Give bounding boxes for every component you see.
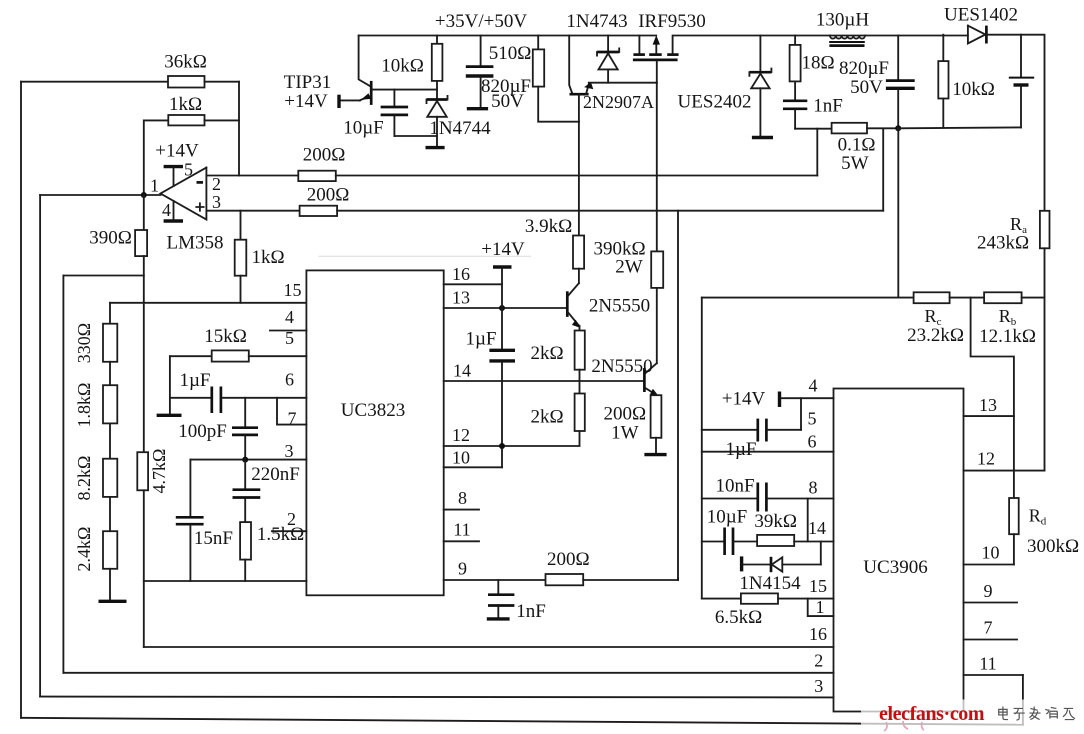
svg-text:elecfans·com: elecfans·com <box>879 703 985 725</box>
wire: TIP31 base to 10k/zener node <box>371 89 437 91</box>
svg-text:1µF: 1µF <box>465 329 496 350</box>
svg-text:200Ω: 200Ω <box>547 549 590 570</box>
terminal bar +14V (UC3906 pin4) <box>778 392 781 408</box>
node: pin13/+14V junction dot <box>499 305 505 311</box>
svg-text:12: 12 <box>452 425 470 445</box>
resistor 2kΩ (upper) <box>579 326 581 331</box>
svg-text:50V: 50V <box>850 77 883 98</box>
wire: pin 13 run to 2N5550 base <box>444 307 566 309</box>
capacitor 10µF (UC3906) <box>723 528 726 556</box>
op-amp minus sign <box>197 181 204 184</box>
svg-text:200Ω: 200Ω <box>603 404 646 425</box>
transistor Q4 2N5550 emitter with arrow <box>646 388 657 395</box>
op-amp power bar pin 5 <box>164 165 183 168</box>
pin 8 stub (UC3823) <box>444 509 479 511</box>
pin 11 run (UC3906) <box>964 674 1023 676</box>
svg-text:8.2kΩ: 8.2kΩ <box>74 456 94 501</box>
wire: 1k right to feedback column <box>205 119 240 121</box>
svg-text:2: 2 <box>287 509 296 529</box>
svg-text:2.4kΩ: 2.4kΩ <box>74 527 94 572</box>
resistor 330Ω <box>103 324 117 362</box>
wire: UC3823 pin15 run <box>110 302 306 304</box>
svg-text:2: 2 <box>814 651 823 671</box>
capacitor 820µF 50V (output) <box>897 36 899 80</box>
capacitor 15nF <box>189 460 191 516</box>
wire: UC3906 sense bus (left vertical) <box>701 298 703 599</box>
resistor Rd 300kΩ <box>1009 498 1019 534</box>
wire: pin 6 run <box>170 397 211 399</box>
wire: pin 5 run with 15k <box>170 355 212 357</box>
pin 10 run (UC3906) <box>964 564 1014 566</box>
wire: Rc/Rb horizontal run <box>702 297 914 299</box>
wire: divider segment 2 <box>109 423 111 458</box>
svg-text:1N4743: 1N4743 <box>566 11 627 32</box>
faint scan line artifact <box>319 255 532 257</box>
resistor 15kΩ <box>212 350 249 361</box>
MOSFET IRF9530 gate bar <box>633 59 678 62</box>
wire: 36k right to feedback column <box>205 81 240 83</box>
capacitor 1µF (pin6) <box>210 387 213 414</box>
wire: LM358 output (pin 1) <box>40 194 160 196</box>
ground (200Ω 1W) <box>644 453 666 456</box>
resistor 390kΩ 2W <box>656 83 658 252</box>
resistor Ra 243kΩ <box>1040 211 1050 249</box>
wire: divider top drop <box>109 303 111 324</box>
svg-text:15: 15 <box>284 280 302 300</box>
svg-text:UES2402: UES2402 <box>678 92 752 113</box>
wire: Rc/Rb node down to pin13 column <box>971 298 1014 498</box>
resistor 10kΩ (battery bleed) <box>942 35 944 61</box>
svg-text:2N2907A: 2N2907A <box>583 92 654 112</box>
wire: sense line down right side <box>897 128 899 297</box>
wire: 2907 base down to 510Ω node <box>578 94 580 122</box>
transistor Q2 2N2907A collector wire <box>569 36 572 95</box>
resistor Rb 12.1kΩ <box>984 292 1022 303</box>
MOSFET U-IRF9530 source lead <box>638 36 640 54</box>
svg-text:15nF: 15nF <box>194 528 233 549</box>
node: output junction dot <box>895 125 901 131</box>
transistor Q3 2N5550 base plate <box>566 291 569 317</box>
svg-text:4: 4 <box>285 307 294 327</box>
ground (divider) <box>99 600 127 603</box>
capacitor 100pF <box>244 398 246 426</box>
wire: +35V/+50V top rail right segment (after MOSFET) <box>673 36 968 54</box>
svg-text:+14V: +14V <box>155 141 199 162</box>
wire: 36k feedback top run <box>21 81 168 83</box>
wire: third left rail (divider net to UC3906 pin2) <box>62 276 64 673</box>
svg-text:1nF: 1nF <box>516 601 546 622</box>
transistor Q4 2N5550 base plate <box>643 368 646 392</box>
svg-text:2W: 2W <box>615 257 643 278</box>
op-amp U2 LM358 triangle <box>161 168 207 220</box>
resistor 4.7kΩ <box>137 452 148 490</box>
svg-text:4.7kΩ: 4.7kΩ <box>149 449 169 494</box>
watermark backing <box>861 700 1036 731</box>
svg-text:1µF: 1µF <box>179 370 210 391</box>
transistor Q1 TIP31 emitter with arrow <box>360 96 371 101</box>
terminal bar (820µF input neg) <box>467 107 488 110</box>
resistor 200Ω (pin 9) <box>546 574 584 585</box>
svg-text:5: 5 <box>184 160 193 180</box>
svg-text:LM358: LM358 <box>167 233 224 254</box>
wire: UC3906 pin 2 run <box>63 672 833 674</box>
wire: 1nF bottom / sense node <box>795 128 832 130</box>
svg-text:+14V: +14V <box>284 91 328 112</box>
pin 7 tie to pin 6 <box>277 398 306 425</box>
svg-text:5: 5 <box>808 409 817 429</box>
svg-text:+14V: +14V <box>722 389 766 410</box>
wire: Rb right to Ra column <box>1022 297 1045 299</box>
wire: rail from UES1402 to right corner <box>986 35 1044 211</box>
zener diode 1N4744 <box>427 98 448 101</box>
capacitor 10µF (TIP31) <box>393 90 395 106</box>
svg-text:4: 4 <box>809 376 818 396</box>
transistor Q1 TIP31 base plate <box>370 81 373 105</box>
svg-text:36kΩ: 36kΩ <box>164 52 207 73</box>
wire: divider segment 1 <box>109 362 111 385</box>
wire: pin 6 run <box>702 451 834 453</box>
terminal bar +14V (UC3823) <box>493 265 512 268</box>
op-amp power bar pin 4 <box>164 219 183 222</box>
resistor 1kΩ (feedback) <box>168 115 204 125</box>
wire: pin 15 run with 6.5k <box>702 598 741 600</box>
diode UES2402 (freewheel) <box>759 36 761 72</box>
resistor 510Ω <box>537 36 539 50</box>
pin 7 stub (UC3906) <box>964 639 1018 641</box>
svg-text:11: 11 <box>979 654 996 674</box>
svg-text:100pF: 100pF <box>178 421 227 442</box>
wire: pin 11 drop <box>1022 675 1024 725</box>
wire: pin 5 run <box>702 429 757 431</box>
wire: +35V/+50V top rail left segment <box>359 35 657 37</box>
resistor Rc 23.2kΩ <box>914 292 950 303</box>
svg-text:12.1kΩ: 12.1kΩ <box>979 326 1036 347</box>
IC U4 UC3906 box <box>834 389 964 712</box>
resistor 2.4kΩ <box>103 531 117 569</box>
transistor Q2 2N2907A emitter with arrow <box>586 84 589 94</box>
wire: feedback column (pin2 net down to pin9 net) <box>677 211 679 580</box>
node: pin12 junction dot <box>499 443 505 449</box>
svg-text:2: 2 <box>212 174 221 194</box>
svg-text:7: 7 <box>984 618 993 638</box>
svg-text:5: 5 <box>285 328 294 348</box>
ground (UES2402) <box>752 136 773 139</box>
capacitor 1µF (UC3906) <box>756 419 759 442</box>
resistor 1kΩ (to UC3823 pin15) <box>240 211 242 240</box>
svg-text:18Ω: 18Ω <box>801 53 834 74</box>
svg-text:7: 7 <box>288 409 297 429</box>
wire: pin 12 run <box>444 431 580 446</box>
svg-text:3: 3 <box>212 192 221 212</box>
svg-text:1: 1 <box>816 597 825 617</box>
wire: shunt right node down to LM358 pin3 wire <box>882 128 884 210</box>
svg-text:510Ω: 510Ω <box>489 43 532 64</box>
wire: second left rail (LM358 out to UC3906 pin3) <box>39 195 41 697</box>
svg-text:3.9kΩ: 3.9kΩ <box>525 216 572 237</box>
wire: Rc to Rb <box>950 297 985 299</box>
svg-text:200Ω: 200Ω <box>303 145 346 166</box>
ground (below 1N4744) <box>426 146 445 149</box>
svg-text:10kΩ: 10kΩ <box>381 56 424 77</box>
svg-text:2kΩ: 2kΩ <box>530 343 563 364</box>
capacitor 820µF 50V (input) <box>480 36 482 66</box>
watermark pink ghost <box>884 721 924 731</box>
svg-text:6: 6 <box>808 432 817 452</box>
wire: pin 8 run with 10nF <box>702 498 757 500</box>
svg-text:9: 9 <box>458 559 467 579</box>
svg-text:15kΩ: 15kΩ <box>204 326 247 347</box>
wire: pin 10 run <box>444 466 502 468</box>
resistor 6.5kΩ <box>741 593 778 603</box>
wire: battery negative rail <box>898 126 1021 129</box>
ground (1nF pin9) <box>487 617 510 620</box>
svg-text:14: 14 <box>453 361 471 381</box>
svg-text:1N4744: 1N4744 <box>429 118 491 139</box>
svg-text:10nF: 10nF <box>715 476 754 497</box>
wire: divider net link to 390Ω column <box>63 275 143 277</box>
svg-text:1nF: 1nF <box>813 96 843 117</box>
svg-text:10: 10 <box>982 543 1000 563</box>
wire: 10µF bottom to zener bottom <box>394 136 437 146</box>
transistor Q2 2N2907A base plate <box>570 93 589 96</box>
resistor 390Ω <box>143 195 145 230</box>
svg-text:39kΩ: 39kΩ <box>754 511 797 532</box>
svg-text:243kΩ: 243kΩ <box>977 233 1029 254</box>
wire: divider segment 3 <box>109 497 111 531</box>
wire: pin 14 run to 2N5550-2 base <box>444 380 644 382</box>
wire: pin 16 run <box>444 283 502 285</box>
transistor Q4 2N5550 collector <box>646 363 657 373</box>
op-amp plus sign <box>196 203 203 210</box>
diode 1N4154 <box>743 564 770 566</box>
pin 12 run (UC3906) <box>964 470 1045 472</box>
svg-text:+35V/+50V: +35V/+50V <box>435 11 527 32</box>
svg-text:UC3823: UC3823 <box>341 400 405 421</box>
resistor 36kΩ <box>168 76 205 88</box>
MOSFET IRF9530 body arrow (up) <box>655 42 657 53</box>
wire: UC3906 pin 3 run <box>40 696 833 699</box>
transistor Q3 2N5550 collector <box>568 283 579 296</box>
wire: bottom run to box <box>144 580 307 582</box>
transistor Q3 2N5550 emitter with arrow <box>568 312 579 326</box>
svg-text:16: 16 <box>452 264 470 284</box>
pin 2 stub (UC3823) <box>272 530 306 532</box>
resistor 8.2kΩ <box>103 459 117 497</box>
wire: pin 3 run <box>190 459 306 461</box>
svg-text:15: 15 <box>809 576 827 596</box>
svg-text:12: 12 <box>977 449 995 469</box>
terminal bar +14V (TIP31) <box>337 95 340 108</box>
wire: TIP31 emitter to +14V terminal <box>341 99 361 101</box>
node: pin1 junction dot <box>141 192 147 198</box>
svg-text:5W: 5W <box>841 153 869 174</box>
resistor 3.9kΩ <box>578 122 580 236</box>
terminal bar (1N4154 anode side) <box>740 556 743 571</box>
svg-text:16: 16 <box>809 624 827 644</box>
svg-text:8: 8 <box>458 488 467 508</box>
svg-text:200Ω: 200Ω <box>307 185 350 206</box>
resistor 200Ω 1W <box>651 395 662 438</box>
wire: bottom rail (36k net to pin 11) <box>21 718 1023 725</box>
wire: pin8 drop to diode row <box>807 499 809 542</box>
wire: pin9 net corner to 200Ω (feedback) <box>677 578 679 580</box>
IC U3 UC3823 box <box>306 270 443 595</box>
svg-text:50V: 50V <box>491 91 524 112</box>
wire: 2907 emitter / zener 4743 / gate node <box>589 82 657 84</box>
wire: pin2 input run with 200Ω <box>206 175 298 177</box>
wire: pin14 drop to diode <box>820 542 822 565</box>
wire: shunt right to output node <box>867 127 898 129</box>
wire: 1k feedback run <box>144 120 169 195</box>
pin 11 stub (UC3823) <box>444 540 479 542</box>
svg-text:1.8kΩ: 1.8kΩ <box>74 383 94 428</box>
pin 13 run (UC3906) <box>964 415 1014 417</box>
svg-text:1kΩ: 1kΩ <box>251 247 284 268</box>
svg-text:1µF: 1µF <box>725 439 756 460</box>
resistor 39kΩ <box>757 535 794 546</box>
svg-text:13: 13 <box>979 395 997 415</box>
pin 1 tie to pin 15 <box>808 599 834 617</box>
wire: pin3 input run with 200Ω <box>206 210 299 212</box>
svg-text:2N5550: 2N5550 <box>589 296 650 317</box>
wire: pin 14 run left part <box>702 541 724 543</box>
transistor Q1 TIP31 collector wire <box>359 36 371 87</box>
wire: left outer rail (36k net) <box>20 82 22 718</box>
svg-text:10µF: 10µF <box>707 507 748 528</box>
svg-text:130µH: 130µH <box>816 10 869 31</box>
MOSFET IRF9530 channel bars <box>633 53 645 56</box>
capacitor 1nF (snubber) <box>783 99 807 102</box>
inductor 130µH <box>830 36 865 39</box>
svg-text:1kΩ: 1kΩ <box>169 94 202 115</box>
resistor 18Ω (snubber) <box>794 36 796 45</box>
resistor 0.1Ω 5W (shunt) <box>832 123 867 134</box>
wire: pin 9 run <box>444 579 546 581</box>
pin 4 run (UC3906) <box>781 397 833 399</box>
pin 4 stub (UC3823) <box>270 330 306 332</box>
svg-text:14: 14 <box>808 518 826 538</box>
wire: shunt left node down to LM358 pin2 wire <box>816 129 818 176</box>
zener diode 1N4743 <box>607 36 609 53</box>
svg-text:9: 9 <box>984 581 993 601</box>
resistor 10kΩ (TIP31 collector pull) <box>436 36 438 44</box>
svg-text:UC3906: UC3906 <box>863 557 927 578</box>
svg-text:10µF: 10µF <box>343 118 384 139</box>
battery symbol <box>1020 35 1022 77</box>
svg-text:3: 3 <box>814 676 823 696</box>
resistor 1.8kΩ <box>103 385 117 423</box>
svg-text:IRF9530: IRF9530 <box>638 11 706 32</box>
resistor 2kΩ (lower) <box>579 381 581 394</box>
wire: UC3906 pin 16 run <box>144 646 834 648</box>
svg-text:220nF: 220nF <box>251 464 300 485</box>
capacitor 1nF (pin 9) <box>497 580 499 593</box>
resistor 1.5kΩ <box>240 522 251 560</box>
wire: IRF9530 gate lead down <box>656 61 658 82</box>
diode UES1402 (series) <box>968 26 986 44</box>
pin 9 stub (UC3906) <box>964 602 1018 604</box>
svg-text:330Ω: 330Ω <box>74 323 94 363</box>
wire: 15k/1µF ground column <box>169 356 171 413</box>
svg-text:11: 11 <box>453 520 470 540</box>
svg-text:820µF: 820µF <box>839 58 889 79</box>
wire: feedback column to inverting input <box>238 82 240 176</box>
svg-text:8: 8 <box>809 478 818 498</box>
svg-text:+14V: +14V <box>481 239 525 260</box>
svg-text:TIP31: TIP31 <box>284 72 332 93</box>
capacitor 10nF <box>756 483 759 512</box>
svg-text:390Ω: 390Ω <box>89 228 132 249</box>
svg-text:300kΩ: 300kΩ <box>1027 536 1079 557</box>
resistor 200Ω (non-inverting input) <box>300 206 338 216</box>
svg-text:4: 4 <box>162 200 171 220</box>
node: pin3 junction dot <box>242 457 248 463</box>
svg-text:1W: 1W <box>611 423 639 444</box>
svg-text:23.2kΩ: 23.2kΩ <box>907 325 964 346</box>
svg-text:1: 1 <box>150 176 159 196</box>
ground (15k/1µF) <box>157 414 182 417</box>
svg-text:1.5kΩ: 1.5kΩ <box>257 524 304 545</box>
wire: divider bottom <box>109 569 111 600</box>
svg-text:13: 13 <box>452 288 470 308</box>
svg-text:UES1402: UES1402 <box>944 5 1018 26</box>
svg-text:2kΩ: 2kΩ <box>530 407 563 428</box>
svg-text:6: 6 <box>285 370 294 390</box>
resistor 200Ω (inverting input) <box>298 171 336 181</box>
watermark chinese characters 电子发烧友 <box>999 707 1075 720</box>
svg-text:10kΩ: 10kΩ <box>952 79 995 100</box>
svg-text:1N4154: 1N4154 <box>739 573 801 594</box>
svg-text:10: 10 <box>452 448 470 468</box>
svg-text:6.5kΩ: 6.5kΩ <box>715 607 762 628</box>
svg-text:2N5550: 2N5550 <box>591 356 652 377</box>
svg-text:3: 3 <box>285 441 294 461</box>
capacitor 220nF <box>244 460 246 489</box>
wire: pin4-pin5 tie <box>800 398 802 430</box>
capacitor 1µF (pins13/14) <box>489 349 515 352</box>
